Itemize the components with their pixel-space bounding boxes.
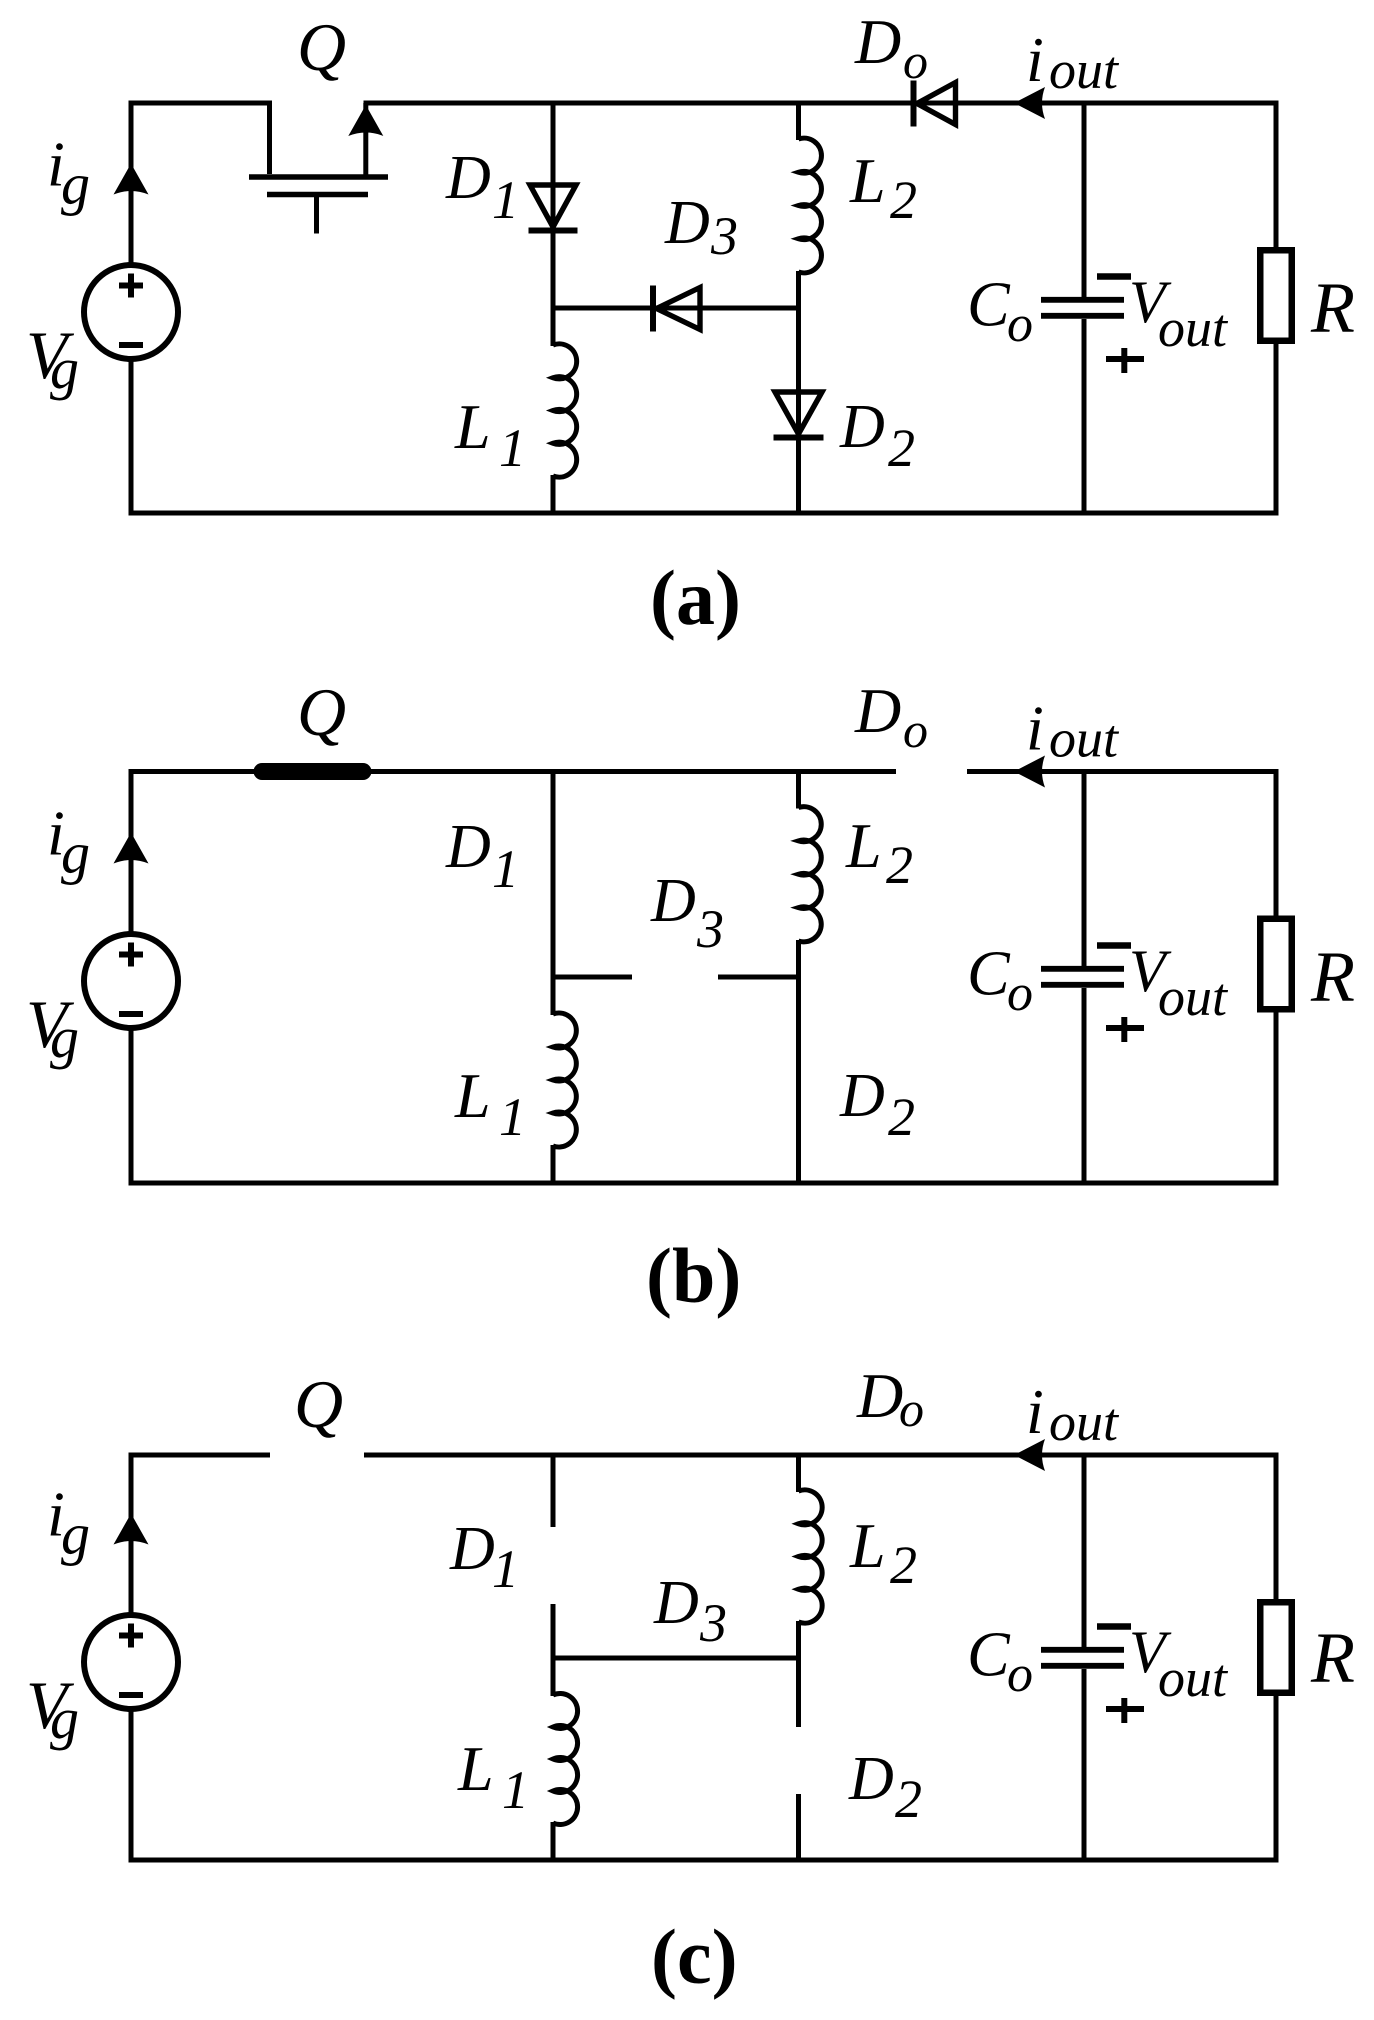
- svg-text:L: L: [454, 1060, 491, 1131]
- svg-text:(b): (b): [646, 1232, 741, 1319]
- svg-text:L: L: [849, 1510, 886, 1581]
- wire: resistor R to bottom rail (b): [1274, 1012, 1279, 1184]
- capacitor Co top plate (c): [1041, 1647, 1124, 1653]
- capacitor Co top plate (a): [1041, 297, 1124, 303]
- wire: top rail through closed switch Q, up to Do gap (b): [129, 769, 897, 774]
- diode Do (a): [911, 81, 917, 127]
- svg-text:D: D: [839, 1062, 885, 1130]
- svg-text:g: g: [50, 336, 79, 401]
- svg-text:2: 2: [890, 1535, 917, 1595]
- wire: left vertical, Vg to bottom rail (a): [129, 360, 134, 514]
- wire: L2 to D3 node (b): [796, 940, 801, 977]
- Vout minus polarity mark (c): [1097, 1623, 1131, 1630]
- current arrow ig (a): [114, 164, 149, 195]
- wire: top rail, Vg corner to open switch Q (c): [129, 1453, 271, 1458]
- svg-text:g: g: [61, 821, 90, 886]
- wire: top rail to capacitor Co (c): [1082, 1455, 1087, 1647]
- svg-text:C: C: [967, 938, 1011, 1009]
- voltage source Vg (c): [84, 1615, 178, 1709]
- capacitor Co bottom plate (c): [1041, 1663, 1124, 1669]
- wire: bottom rail (c): [129, 1858, 1279, 1863]
- wire: D1 node to L2 node through diode D3 (a): [553, 306, 799, 311]
- wire: capacitor Co to bottom rail (a): [1082, 319, 1087, 513]
- svg-text:2: 2: [890, 170, 917, 230]
- wire: D1 cathode stub (diode off) (c): [551, 1604, 556, 1658]
- wire: left vertical, Vg to bottom rail (b): [129, 1029, 134, 1184]
- svg-text:i: i: [1026, 693, 1044, 764]
- wire: D2 conducting (diode on) (b): [796, 977, 801, 1183]
- wire: D3 off, left stub (b): [553, 975, 632, 980]
- Vg plus terminal mark (b): [119, 952, 143, 958]
- wire: D2 anode stub (diode off) (c): [796, 1658, 801, 1727]
- svg-text:Q: Q: [297, 674, 346, 750]
- wire: top rail, Vg corner to Q drain (a): [129, 101, 273, 106]
- Vg minus terminal mark (b): [119, 1011, 143, 1017]
- svg-text:C: C: [967, 1619, 1011, 1690]
- switch Q closed: conducting bar (b): [262, 763, 363, 780]
- diode D3 (a): [650, 286, 656, 332]
- svg-text:D: D: [856, 1360, 903, 1431]
- inductor L2 (b): [799, 807, 822, 942]
- svg-text:D: D: [653, 1569, 699, 1637]
- svg-text:2: 2: [888, 1087, 915, 1147]
- Vout plus polarity mark (b): [1106, 1025, 1144, 1031]
- wire: L2 to D3 node (c): [796, 1621, 801, 1658]
- svg-text:R: R: [1310, 937, 1355, 1017]
- resistor R (a): [1260, 250, 1292, 341]
- svg-text:out: out: [1158, 298, 1229, 358]
- current arrow iout (c): [1014, 1439, 1045, 1471]
- svg-text:2: 2: [886, 835, 913, 895]
- wire: top rail right corner to resistor R (c): [1274, 1453, 1279, 1603]
- svg-text:Q: Q: [294, 1366, 343, 1442]
- transistor Q (MOSFET) drain lead (a): [267, 101, 272, 175]
- wire: top rail, right of Do gap to right edge (b): [967, 769, 1279, 774]
- Vout minus polarity mark (a): [1097, 273, 1131, 280]
- svg-text:L: L: [454, 391, 491, 462]
- svg-text:o: o: [1007, 965, 1033, 1022]
- svg-text:out: out: [1049, 1392, 1120, 1452]
- wire: D3 conducting (diode on) (c): [553, 1656, 799, 1661]
- capacitor Co top plate (b): [1041, 966, 1124, 972]
- capacitor Co bottom plate (a): [1041, 313, 1124, 319]
- Vg minus terminal mark (c): [119, 1692, 143, 1698]
- svg-text:out: out: [1049, 40, 1120, 100]
- wire: D3 node to inductor L1 (b): [551, 977, 556, 1015]
- svg-text:out: out: [1049, 709, 1120, 769]
- wire: D1 conducting (diode on) (b): [551, 769, 556, 977]
- diode D2 (a): [775, 392, 822, 434]
- svg-text:(a): (a): [650, 554, 741, 641]
- svg-text:D: D: [445, 144, 491, 212]
- wire: top rail to inductor L2 (c): [796, 1453, 801, 1493]
- svg-text:o: o: [903, 702, 928, 758]
- svg-text:out: out: [1158, 1648, 1229, 1708]
- svg-text:L: L: [849, 145, 886, 216]
- wire: bottom rail (a): [129, 511, 1279, 516]
- wire: top rail to capacitor Co (a): [1082, 103, 1087, 297]
- svg-text:3: 3: [710, 206, 738, 266]
- transistor Q gate bar (a): [267, 192, 368, 198]
- svg-text:D: D: [650, 867, 696, 935]
- wire: capacitor Co to bottom rail (b): [1082, 988, 1087, 1183]
- wire: left vertical, Vg to bottom rail (c): [129, 1710, 134, 1861]
- svg-text:out: out: [1158, 967, 1229, 1027]
- svg-text:D: D: [854, 675, 901, 746]
- svg-text:i: i: [1026, 24, 1044, 95]
- svg-text:3: 3: [696, 899, 724, 959]
- svg-text:2: 2: [895, 1769, 922, 1829]
- wire: D3 node to inductor L1 (c): [551, 1658, 556, 1696]
- svg-text:1: 1: [492, 839, 519, 899]
- wire: left vertical, top rail to Vg (a): [129, 103, 134, 265]
- svg-text:(c): (c): [651, 1913, 738, 2000]
- inductor L1 (a): [553, 344, 577, 477]
- svg-text:D: D: [445, 813, 491, 881]
- svg-text:o: o: [1007, 296, 1033, 353]
- svg-text:1: 1: [499, 418, 526, 478]
- wire: top rail right corner to resistor R (b): [1274, 769, 1279, 919]
- current arrow iout (b): [1014, 756, 1045, 788]
- Vout plus polarity mark (c): [1106, 1706, 1144, 1712]
- svg-text:D: D: [854, 6, 901, 77]
- wire: top rail, right of open Q to right edge (c): [364, 1453, 1279, 1458]
- wire: L1 to bottom rail (a): [551, 475, 556, 513]
- svg-text:2: 2: [888, 418, 915, 478]
- svg-text:D: D: [839, 393, 885, 461]
- svg-text:1: 1: [499, 1087, 526, 1147]
- transistor Q source lead (a): [363, 103, 368, 175]
- svg-text:D: D: [848, 1745, 894, 1813]
- svg-text:L: L: [457, 1733, 494, 1804]
- current arrow iout (a): [1014, 87, 1045, 119]
- current arrow ig (c): [114, 1514, 149, 1545]
- inductor L1 (b): [553, 1013, 576, 1147]
- inductor L1 (c): [553, 1694, 578, 1825]
- svg-text:R: R: [1310, 1618, 1355, 1698]
- svg-text:D: D: [664, 189, 710, 257]
- wire: L1 to bottom rail (c): [551, 1822, 556, 1860]
- svg-text:o: o: [899, 1381, 924, 1437]
- wire: L2 to D3 node (a): [796, 271, 801, 308]
- wire: resistor R to bottom rail (c): [1274, 1695, 1279, 1860]
- wire: bottom rail (b): [129, 1181, 1279, 1186]
- svg-text:g: g: [50, 1005, 79, 1070]
- diode D1 (a): [530, 185, 576, 227]
- wire: D3 node to inductor L1 (a): [551, 308, 556, 346]
- svg-text:Q: Q: [297, 9, 346, 85]
- wire: D3 off, right stub (b): [718, 975, 799, 980]
- svg-text:g: g: [61, 1502, 90, 1567]
- Vg plus terminal mark (c): [119, 1633, 143, 1639]
- svg-text:R: R: [1310, 268, 1355, 348]
- inductor L2 (c): [799, 1490, 823, 1623]
- wire: left vertical, top rail to Vg (c): [129, 1455, 134, 1615]
- svg-text:g: g: [61, 152, 90, 217]
- resistor R (b): [1260, 919, 1292, 1010]
- wire: D3 node to bottom rail through diode D2 (a): [796, 308, 801, 513]
- svg-text:1: 1: [502, 1760, 529, 1820]
- wire: top rail to D3 node through diode D1 (a): [551, 101, 556, 309]
- voltage source Vg (a): [84, 265, 178, 359]
- wire: left vertical, top rail to Vg (b): [129, 772, 134, 934]
- svg-text:o: o: [903, 33, 928, 89]
- svg-text:3: 3: [699, 1593, 727, 1653]
- capacitor Co bottom plate (b): [1041, 982, 1124, 988]
- svg-text:1: 1: [492, 170, 519, 230]
- transistor Q gate lead (a): [314, 195, 319, 234]
- transistor Q channel bar (a): [249, 174, 388, 180]
- Vout plus polarity mark (a): [1106, 356, 1144, 362]
- svg-text:D: D: [449, 1515, 495, 1583]
- wire: L1 to bottom rail (b): [551, 1145, 556, 1183]
- wire: resistor R to bottom rail (a): [1274, 343, 1279, 513]
- wire: D2 cathode stub (diode off) (c): [796, 1794, 801, 1860]
- voltage source Vg (b): [84, 934, 178, 1028]
- inductor L2 (a): [799, 138, 822, 273]
- wire: D1 anode stub (diode off) (c): [551, 1453, 556, 1528]
- wire: top rail to capacitor Co (b): [1082, 772, 1087, 967]
- current arrow ig (b): [114, 833, 149, 864]
- wire: top rail, Q source to right edge (a): [364, 101, 1279, 106]
- svg-text:C: C: [967, 269, 1011, 340]
- wire: capacitor Co to bottom rail (c): [1082, 1669, 1087, 1860]
- resistor R (c): [1260, 1602, 1292, 1693]
- svg-text:L: L: [845, 810, 882, 881]
- Vout minus polarity mark (b): [1097, 942, 1131, 949]
- Vg minus terminal mark (a): [119, 342, 143, 348]
- svg-text:i: i: [1026, 1376, 1044, 1447]
- svg-text:1: 1: [492, 1539, 519, 1599]
- wire: top rail to inductor L2 (a): [796, 101, 801, 141]
- svg-text:o: o: [1007, 1646, 1033, 1703]
- Vg plus terminal mark (a): [119, 283, 143, 289]
- svg-text:g: g: [50, 1686, 79, 1751]
- transistor Q source arrow (a): [348, 105, 383, 136]
- wire: top rail to inductor L2 (b): [796, 769, 801, 809]
- wire: top rail right corner to resistor R (a): [1274, 101, 1279, 251]
